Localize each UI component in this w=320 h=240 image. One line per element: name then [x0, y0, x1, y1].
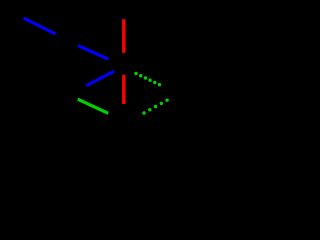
blue dashed axis, dash 2 — [78, 46, 108, 60]
green solid vector (bottom-left) — [78, 99, 108, 113]
red dashed vertical axis, dash 2 (bottom) — [122, 75, 125, 104]
green dotted line lower (rising to the right) — [142, 99, 168, 115]
blue solid vector (lower-left pointing to center) — [86, 71, 114, 86]
green dotted line upper (center to lower-right) — [134, 72, 161, 87]
red dashed vertical axis, dash 1 (top) — [122, 19, 125, 53]
blue dashed axis, dash 1 (upper-left) — [24, 18, 56, 34]
